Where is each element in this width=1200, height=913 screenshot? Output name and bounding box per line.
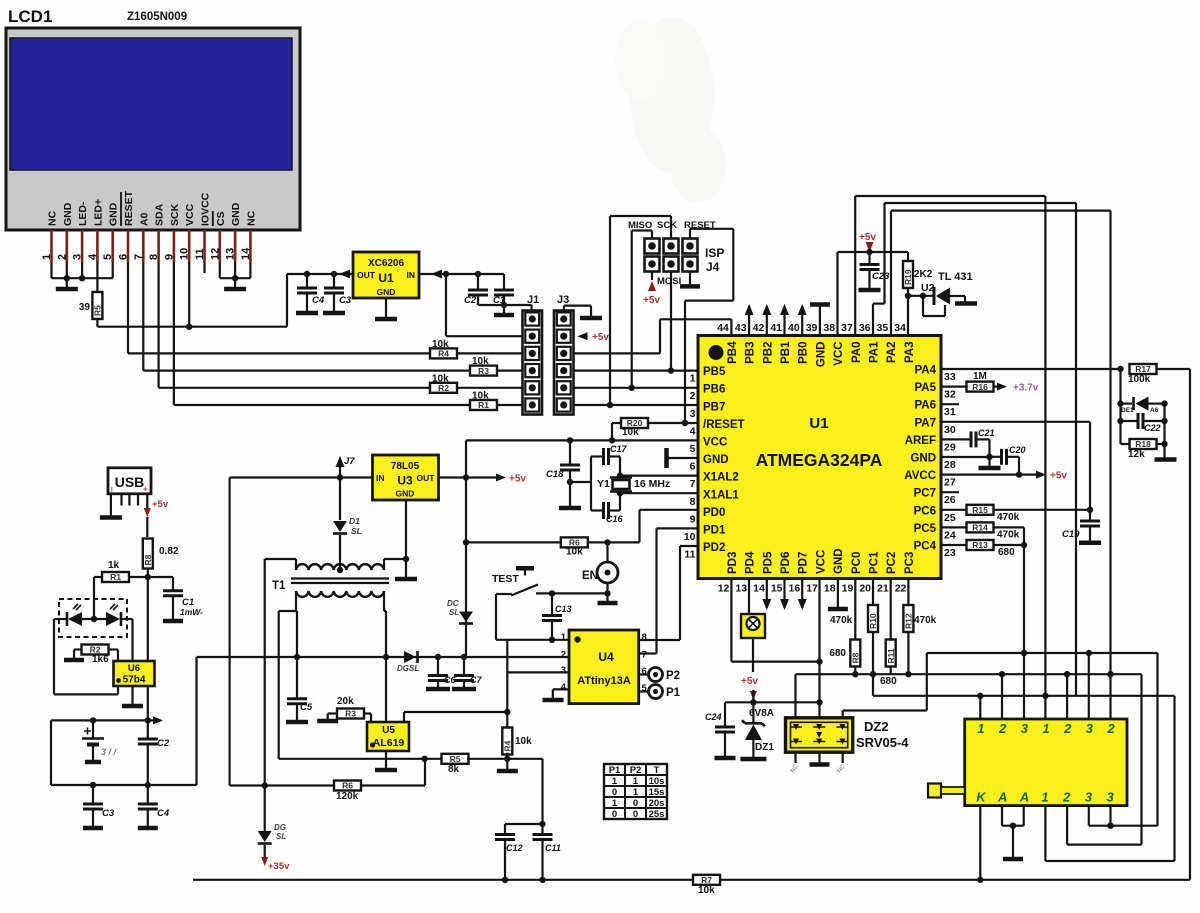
diode DE1 [1121,403,1133,405]
net-2 rail [796,673,1142,675]
net-1 rail from R10 [872,674,874,696]
U1 pin26 PC7 stub [941,491,959,493]
arrows on U1 pins 14,15,16 [766,579,768,609]
svg-text:1: 1 [690,373,696,385]
svg-text:1: 1 [977,721,984,736]
svg-text:C21: C21 [978,428,995,438]
svg-text:37: 37 [841,322,853,334]
svg-text:R3: R3 [345,709,356,719]
svg-text:DZ2: DZ2 [864,719,889,734]
svg-text:U1: U1 [378,271,394,285]
svg-text:U4: U4 [598,650,614,664]
svg-text:R5: R5 [450,754,461,764]
voltage regulator U1 XC6206 [353,252,419,298]
svg-text:P2: P2 [666,670,680,682]
svg-text:27: 27 [944,477,956,489]
svg-text:VCC: VCC [703,437,727,449]
svg-text:35: 35 [877,322,889,334]
svg-text:C2: C2 [157,738,170,749]
junction dot +5v rail [750,699,756,705]
trimmer RT1 [748,579,750,615]
junction dot C3 [331,271,337,277]
svg-text:PA7: PA7 [914,417,936,429]
ground (LCD pins 12-14) [234,278,236,288]
diode DG SL to +35v [264,786,266,832]
svg-text:PC5: PC5 [914,523,937,535]
wire U1 pin30 PA7 right and down to C19 node [941,421,1090,423]
svg-text:R19: R19 [903,269,913,285]
connector USB [108,468,151,494]
svg-text:16 MHz: 16 MHz [634,478,670,490]
svg-text:R12: R12 [904,613,914,629]
svg-text:9: 9 [163,254,175,260]
svg-text:CS: CS [215,211,227,226]
svg-text:1M: 1M [973,371,987,382]
svg-text:PB5: PB5 [703,366,726,378]
ground (U6 center) [131,686,133,704]
svg-text:DZ1: DZ1 [755,742,774,753]
svg-text:+: + [143,485,148,494]
LCD pin 13 wire stub [234,230,237,262]
svg-text:0: 0 [612,809,617,820]
capacitor C11 [541,824,543,835]
svg-text:XC6206: XC6206 [368,258,405,269]
arrow J7 [339,467,341,478]
svg-text:R1: R1 [110,572,121,582]
ground (XC6206 GND) [385,298,387,317]
svg-text:LED+: LED+ [92,199,104,226]
wire ladder right column [1163,404,1165,460]
svg-text:1: 1 [633,776,639,787]
arrow +3.7v [997,383,1007,391]
ground (ISP pin6) [689,272,691,285]
battery BT1 [92,720,94,737]
wire DC diode node to R6 [466,541,561,543]
svg-text:3: 3 [1021,721,1029,736]
svg-text:PA0: PA0 [851,342,863,364]
capacitor C5 [296,657,298,699]
resistor R5 8k [442,754,469,764]
LCD pin 2 wire stub [66,230,69,262]
svg-text:U5: U5 [382,725,395,736]
wire U5 center pin down to ground [385,721,387,723]
microcontroller U1 ATMEGA324PA [698,336,941,579]
svg-text:PD2: PD2 [703,542,725,554]
capacitor C13 [551,593,553,615]
svg-text:OUT: OUT [417,473,436,483]
LCD pin 3 wire stub [81,230,84,262]
svg-text:10: 10 [684,531,696,543]
svg-text:R15: R15 [972,505,988,515]
svg-text:R6: R6 [342,781,353,791]
svg-text:DG: DG [274,823,286,832]
wire U1 pin8 X1AL1 [620,492,698,494]
svg-text:PA4: PA4 [914,365,936,377]
ground (R4) [506,759,508,769]
svg-text:A: A [997,790,1007,805]
wire R17 right down to bottom rail (cathode line) [1189,369,1191,880]
capacitor C23 [868,252,870,265]
svg-text:PB1: PB1 [780,341,792,364]
svg-text:+5v: +5v [152,499,169,510]
svg-text:PC7: PC7 [914,488,936,500]
svg-text:PD3: PD3 [727,552,739,574]
wire T1 primary right terminal to U3 GND [383,559,385,570]
LCD pin 9 wire stub [173,230,176,262]
capacitor C1 [503,274,505,290]
svg-text:1k6: 1k6 [92,654,109,665]
svg-text:R4: R4 [503,740,513,751]
resistor R10 470k vertical on PC1 [872,579,874,606]
timing table P1/P2/T [604,764,667,819]
junction dot R4 bottom [506,753,508,759]
svg-text:680: 680 [829,648,846,659]
wire U5 top-right pin to R4 column [404,711,507,713]
svg-text:C7: C7 [470,675,482,685]
svg-text:SL: SL [276,832,286,841]
svg-text:P2: P2 [630,765,642,776]
svg-text:C18: C18 [546,469,564,480]
wire U1 pin17 VCC down to DZ2 [818,579,820,718]
wire right LED to U6 [121,618,133,620]
junction dot R8/R1/C1 [145,574,151,580]
svg-text:0.82: 0.82 [159,546,179,557]
svg-text:2: 2 [1063,721,1072,736]
svg-text:VCC: VCC [184,203,196,226]
svg-text:SCK: SCK [657,220,677,231]
svg-text:R8: R8 [143,554,153,565]
wire 3.3V rail under LCD (R5 to regulator output) [97,326,287,328]
wire SCK to PB7 line [670,216,672,239]
switch TEST [516,566,534,571]
capacitor C22 [1121,420,1139,422]
svg-text:A0: A0 [138,212,150,226]
resistor R8 0.82 vertical [143,539,153,569]
svg-text:PA3: PA3 [904,342,916,364]
resistor R1 1k [94,576,103,578]
svg-text:8: 8 [642,632,647,643]
LCD1 module body [6,28,300,230]
test point P1 [639,690,649,692]
svg-text:Z1605N009: Z1605N009 [127,11,187,23]
svg-text:22: 22 [895,583,907,595]
junction dot at U5 riser [383,654,389,660]
voltage regulator U3 78L05 [373,455,439,500]
svg-text:R3: R3 [478,366,489,376]
arrows on U1 pins 43-40 [748,306,750,336]
svg-text:D1: D1 [349,516,360,526]
svg-text:13: 13 [735,583,747,595]
svg-text:C3: C3 [102,808,115,819]
svg-text:R13: R13 [972,540,988,550]
capacitor C4 [306,274,308,288]
svg-text:PB3: PB3 [745,342,757,364]
svg-text:470k: 470k [830,615,853,626]
wire J3 pin3 riser to U1 pin44 PB4 [659,319,661,353]
transformer T1 primary winding [296,564,384,570]
net-1 rail right loop down [1173,696,1175,861]
svg-text:GND: GND [377,287,396,297]
svg-text:U6: U6 [128,663,140,674]
resistor R14 470k on PC5 [941,526,967,528]
svg-text:57b4: 57b4 [123,675,146,686]
svg-text:470k: 470k [914,615,937,626]
USB pin stubs [120,494,122,506]
svg-text:C22: C22 [1144,423,1161,433]
svg-text:R10: R10 [868,613,878,629]
arrow on OUT line [339,270,350,279]
svg-text:11: 11 [684,549,695,561]
wire C18 node to crystal caps [570,481,591,483]
junction dot battery rail [145,717,151,723]
resistor R8b 680 vertical on PC0 [854,579,856,641]
svg-text:R11: R11 [886,648,896,663]
battery rail bottom [51,784,197,786]
wire U6 rail riser to detector line [195,657,197,785]
+5v rail above DZ1 [725,701,820,703]
LCD pin 6 wire stub [127,230,130,262]
wire U1 pin7 X1AL2 [620,475,698,477]
svg-text:1: 1 [41,254,53,260]
svg-text:PC0: PC0 [851,552,863,574]
U1 pin31 PA6 stub [941,403,959,405]
svg-text:OUT: OUT [357,270,376,280]
svg-text:TEST: TEST [492,573,519,585]
svg-text:R17: R17 [1135,364,1151,374]
svg-text:10k: 10k [622,427,639,438]
svg-text:A6: A6 [1150,407,1159,414]
svg-text:31: 31 [944,406,956,418]
svg-text:32: 32 [944,389,956,401]
svg-text:20s: 20s [649,798,665,809]
wire DZ2 right pin to net-3 rail [842,711,844,718]
svg-text:NC: NC [47,210,59,226]
svg-text:5: 5 [690,443,696,455]
wire trimmer to +5v rail [752,638,754,672]
svg-text:PC4: PC4 [914,541,937,553]
wire right column of loop3 down to net 2 [1109,211,1111,719]
junction dots diode row [1117,400,1123,406]
svg-text:100k: 100k [1128,374,1151,385]
svg-text:0: 0 [633,809,638,820]
svg-text:1: 1 [612,776,618,787]
svg-text:21: 21 [877,583,889,595]
resistor R5 39ohm (LCD backlight), vertical [96,262,98,292]
svg-text:P1: P1 [666,687,681,699]
resistor R18 12k [1121,443,1131,445]
svg-text:25: 25 [944,512,956,524]
svg-text:3: 3 [690,408,696,420]
wire to U4 pin1 [496,639,569,641]
svg-text:PA1: PA1 [869,341,881,363]
junction dot detector node at C5 [294,654,300,660]
wire MISO to PB6 line [651,231,653,239]
svg-text:PD7: PD7 [798,552,810,574]
svg-text:PD5: PD5 [762,551,774,574]
svg-text:10k: 10k [432,374,449,385]
wire DZ2 left pin to net-2 rail [794,674,796,718]
svg-text:+5v: +5v [859,232,876,243]
svg-text:AREF: AREF [905,435,936,447]
svg-text:+35v: +35v [268,861,290,872]
svg-text:1: 1 [1042,721,1049,736]
resistor R15 470k on PC6 [941,509,967,511]
resistor R4 10k [128,352,430,354]
svg-text:LED-: LED- [77,201,89,226]
svg-text:14: 14 [240,247,252,260]
wire U1 pin10 PD1 to U4 pin7 [657,527,699,529]
resistor R2 10k [159,387,430,389]
net-3 rail right loop down [1156,653,1158,826]
svg-text:USB: USB [115,474,145,490]
svg-text:AVCC: AVCC [904,470,936,482]
svg-text:PA2: PA2 [886,342,898,364]
wire 8k line corner down to C12/C11 node [541,759,543,824]
svg-text:GND: GND [703,454,729,466]
svg-text:SDA: SDA [154,203,166,226]
svg-text:GND: GND [910,453,936,465]
LCD pin 10 wire stub [188,230,191,262]
wire LCD pins 12-14 ground rail [220,277,251,279]
wire U1 pin28 GND to C21/C20 junction [941,456,990,458]
svg-text:41: 41 [770,322,782,334]
wire R6 node up to U1 pin9 PD0 [638,510,640,543]
svg-text:PD6: PD6 [780,552,792,574]
svg-text:PA5: PA5 [914,382,936,394]
svg-text:R8: R8 [851,652,861,663]
wire T1 primary left terminal down to 35v diode [295,559,297,570]
wire LCD pin10 VCC drop to 3.3V rail [188,262,190,327]
+5v arrow (top rail) [868,244,870,252]
svg-text:470k: 470k [997,530,1020,541]
wire K pin to bottom rail [979,806,981,880]
svg-text:R16: R16 [972,382,988,392]
svg-text:T1: T1 [272,580,286,592]
svg-text:GND: GND [108,202,120,226]
svg-text:14: 14 [753,583,765,595]
svg-text:SL: SL [449,608,459,617]
svg-text:K: K [976,790,987,805]
svg-text:78L05: 78L05 [391,461,420,472]
wire XC6206 IN line [419,273,504,275]
wire MOSI to PB5 line [670,272,672,371]
capacitor C12 [505,823,543,825]
wire A pins to ground [1001,806,1003,826]
svg-text:DE1: DE1 [1121,407,1134,414]
net-3 rail [927,652,1158,654]
svg-text:R7: R7 [701,875,712,885]
resistor R20 10k (reset pullup) [612,422,622,424]
svg-text:4: 4 [561,682,567,693]
LCD pin 12 wire stub [219,230,222,262]
ground (LCD pins 1-3,5) [66,278,68,288]
svg-text:J1: J1 [527,294,539,306]
svg-text:34: 34 [894,322,906,334]
wire right column of loop1 down to LED connector net 1 [1044,196,1046,719]
wire J3 pin6 / PB7 line to U1 pin3 [574,404,699,406]
IR LED left [54,618,68,620]
svg-text:8: 8 [690,496,696,508]
svg-text:+5v: +5v [592,332,609,343]
LCD pin 11 wire stub [203,230,206,262]
svg-text:3: 3 [561,665,566,676]
wire R14/R13 junction down to net 3 [1023,527,1025,545]
svg-text:C4: C4 [157,808,170,819]
svg-text:2K2: 2K2 [914,269,933,280]
wire U3 OUT to +5v [439,476,497,478]
svg-text:7: 7 [642,650,647,661]
svg-text:AL619: AL619 [373,737,405,749]
svg-text:10k: 10k [472,356,489,367]
capacitor C16 [591,509,604,511]
svg-text:DG: DG [397,664,409,673]
svg-text:X1AL1: X1AL1 [703,489,739,501]
wire U1 pin33 PA4 to R17 [941,368,1121,370]
wire right column of loop2 down [1075,203,1077,696]
junction dot C4 [304,271,310,277]
svg-text:IN: IN [376,473,385,483]
svg-text:1: 1 [561,632,567,643]
svg-text:2: 2 [56,254,68,260]
svg-text:C3: C3 [339,295,352,306]
capacitor C19 [1089,510,1091,521]
svg-text:MOSI: MOSI [657,276,681,287]
diode DC SL [459,612,473,623]
svg-text:TL 431: TL 431 [938,271,973,283]
svg-text:DC: DC [447,599,459,608]
svg-text:43: 43 [735,322,747,334]
svg-text:GND: GND [396,489,415,499]
svg-text:23: 23 [944,547,956,559]
svg-text:16: 16 [789,583,801,595]
arrow +35v [261,857,268,866]
wire U3 IN from left [230,476,373,478]
wire top loop 2 (PA1 to right column) [883,203,885,304]
svg-text:+5v: +5v [643,295,660,306]
svg-text:PC2: PC2 [886,552,898,574]
svg-text:VCC: VCC [815,550,827,574]
junction dot PD3/VCC column [816,658,822,664]
svg-text:10k: 10k [698,885,715,896]
svg-text:C17: C17 [610,444,628,454]
svg-text:C16: C16 [606,514,624,524]
svg-text:A: A [1019,790,1029,805]
wire LCD pin9 SCK to R1 [173,262,175,405]
svg-text:U1: U1 [809,415,828,432]
svg-text:1: 1 [1041,790,1048,805]
wire J3 pin4 / PB5 line to U1 pin1 [574,370,699,372]
svg-text:1k: 1k [108,560,120,571]
svg-text:9: 9 [690,513,696,525]
wire VCC rail riser [465,440,467,477]
svg-text:R14: R14 [972,523,988,533]
svg-text:C2: C2 [464,295,477,306]
resistor R16 1M on PA5 [941,386,967,388]
svg-text:SCK: SCK [169,203,181,226]
svg-text:R18: R18 [1135,439,1151,449]
connector J1 6-pin header [523,311,543,415]
wire left LED loop down [53,619,55,694]
svg-text:PA6: PA6 [914,400,936,412]
diode D1 SL [339,478,341,521]
ground (U1 pin6 GND) sideways [668,457,698,459]
junction dot EN [604,539,610,545]
wire LCD pin11 stub [203,262,205,273]
LCD pin 14 wire stub [249,230,252,262]
connector plug lug [928,784,941,798]
junction dot C12/C11 node [539,821,545,827]
junction dot +5v rail [866,249,872,255]
